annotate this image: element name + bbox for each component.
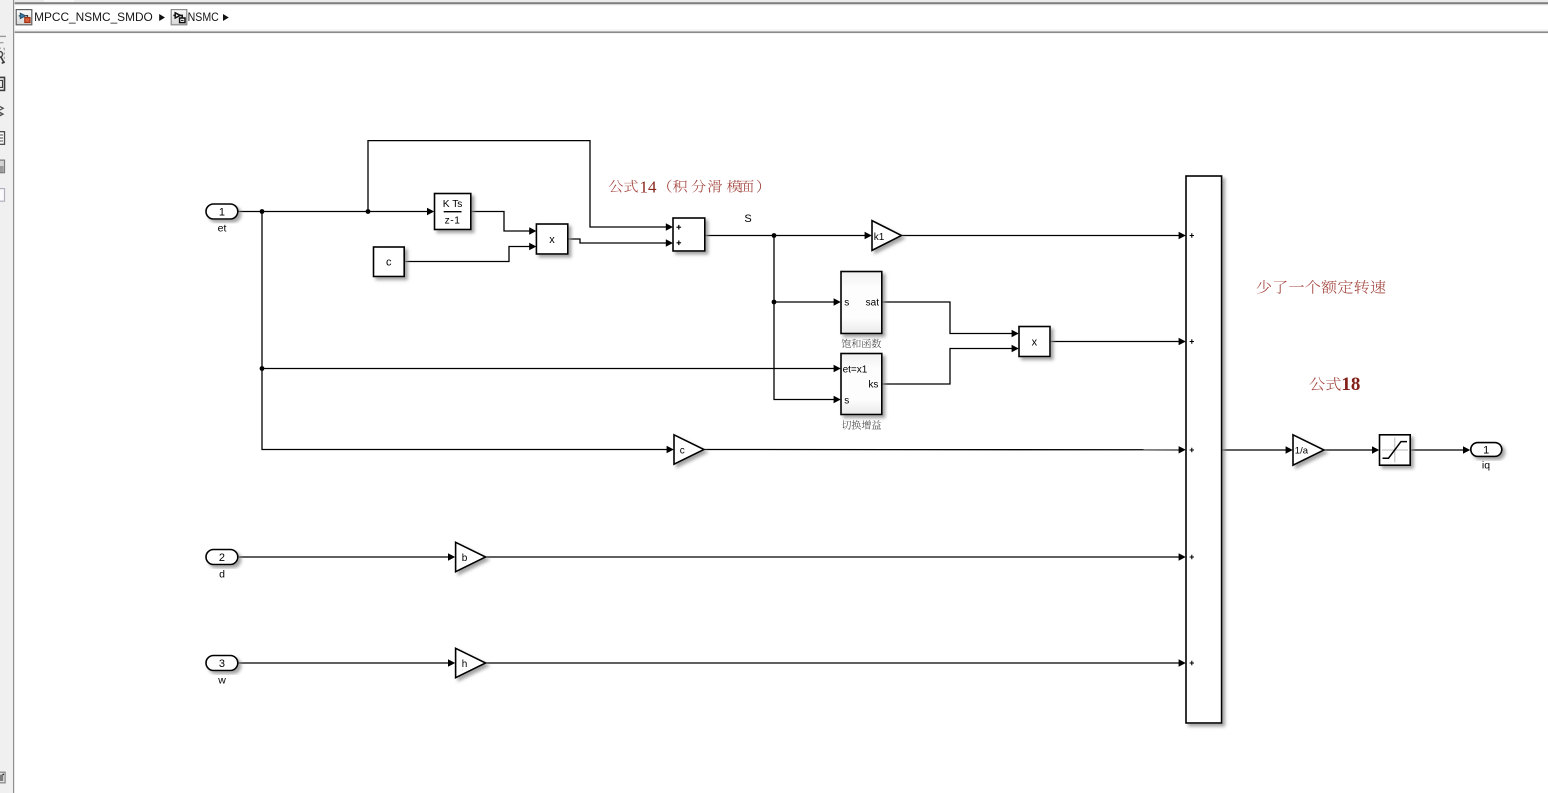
wire big sum output to gain 1/a — [1222, 449, 1287, 451]
left strip document icon — [0, 132, 5, 145]
svg-text:et=x1: et=x1 — [843, 364, 868, 375]
svg-text:b: b — [462, 553, 468, 564]
breadcrumb bar background — [15, 5, 1548, 30]
svg-text:1: 1 — [219, 207, 225, 219]
gain k1 — [872, 221, 902, 251]
svg-text:z-1: z-1 — [445, 215, 461, 226]
outport 1 iq — [1471, 443, 1502, 457]
inport 3 w — [206, 656, 238, 671]
breadcrumb model icon (MPCC_NSMC_SMDO) — [16, 10, 32, 25]
saturation subsystem 饱和函数 — [841, 272, 882, 334]
breadcrumb bottom border — [15, 31, 1548, 33]
gain c — [674, 435, 704, 464]
svg-text:S: S — [744, 213, 751, 225]
breadcrumb bar lower shading — [15, 29, 1548, 31]
svg-text:c: c — [386, 257, 392, 269]
svg-text:x: x — [1032, 336, 1038, 348]
breadcrumb separator arrow 1 — [159, 14, 165, 21]
wire gain h to big sum input 5 — [486, 662, 1180, 664]
svg-text:sat: sat — [866, 298, 880, 309]
annotation 公式14（积分滑模面） — [609, 180, 623, 192]
left strip find icon — [0, 48, 4, 63]
svg-text:s: s — [844, 395, 849, 406]
wire gain 1/a to saturation block — [1324, 449, 1373, 451]
left strip small mark — [0, 35, 6, 37]
wire K Ts output to product x top input — [471, 212, 530, 232]
wire saturation sat output to product x2 top input — [882, 302, 1013, 334]
wire product x2 to big sum input 2 — [1050, 341, 1180, 343]
annotation 少了一个额定转速 — [1257, 280, 1271, 294]
top dark border line — [15, 2, 1548, 4]
breadcrumb separator arrow 2 — [223, 14, 229, 21]
gain h — [456, 648, 486, 677]
wire switching gain ks output to product x2 bottom input — [882, 349, 1013, 385]
svg-text:18: 18 — [1341, 374, 1360, 395]
node junction S at x774 — [772, 233, 777, 238]
node junction et branch at y368 — [260, 366, 265, 371]
svg-text:d: d — [219, 569, 225, 581]
wire S down to saturation input — [774, 236, 834, 303]
sum block ++ — [673, 218, 705, 251]
gain 1/a — [1293, 435, 1324, 465]
wire saturation to outport iq — [1410, 449, 1463, 451]
constant block c — [374, 247, 405, 277]
svg-text:iq: iq — [1482, 460, 1490, 472]
svg-text:1/a: 1/a — [1295, 445, 1309, 456]
big sum block (5 inputs) — [1186, 176, 1222, 723]
label 饱和函数 — [842, 339, 851, 348]
product block x (second) — [1019, 327, 1050, 357]
svg-text:14: 14 — [640, 177, 658, 196]
wire inport3 w to gain h — [238, 662, 449, 664]
wire inport2 d to gain b — [238, 556, 449, 558]
wire et branch down to et=x1 input — [262, 212, 834, 369]
svg-text:x: x — [549, 234, 555, 246]
svg-text:3: 3 — [219, 658, 225, 670]
gain b — [456, 542, 486, 571]
node junction on et wire at x262 — [260, 209, 265, 214]
node junction S branch at y302 — [772, 300, 777, 305]
svg-text:MPCC_NSMC_SMDO: MPCC_NSMC_SMDO — [34, 10, 153, 24]
top window remnant band — [15, 0, 1548, 2]
left strip bottom toggle button — [0, 772, 5, 783]
svg-text:et: et — [218, 223, 227, 235]
node junction on et wire at x368 — [366, 209, 371, 214]
svg-text:s: s — [844, 298, 849, 309]
wire inport1 et to K Ts block — [238, 211, 428, 213]
wire product x to sum bottom input — [568, 239, 667, 243]
left strip image icon — [0, 160, 5, 173]
left toolbar separator line — [13, 0, 15, 793]
wire feedback up from junction to sum top input — [368, 141, 667, 227]
wire gain k1 to big sum input 1 — [902, 235, 1180, 237]
svg-text:h: h — [462, 659, 468, 670]
svg-text:ks: ks — [868, 380, 878, 391]
svg-text:NSMC: NSMC — [188, 10, 219, 24]
discrete integrator block K Ts/z-1 — [435, 194, 471, 230]
left strip fit-view icon — [0, 77, 5, 90]
inport 2 d — [206, 550, 238, 565]
svg-text:w: w — [217, 675, 226, 687]
svg-text:c: c — [680, 445, 685, 456]
wire et branch down to gain c input — [262, 369, 667, 450]
breadcrumb subsystem icon (NSMC) — [171, 10, 187, 25]
inport 1 et — [206, 204, 238, 219]
left strip partial icon line — [0, 42, 4, 44]
svg-text:2: 2 — [219, 552, 225, 564]
switching gain subsystem 切换增益 — [841, 354, 882, 415]
label 切换增益 — [842, 420, 851, 429]
left toolbar strip — [0, 0, 14, 793]
wire S down to switching gain s input — [774, 302, 834, 400]
svg-text:1: 1 — [1483, 445, 1489, 457]
svg-text:K Ts: K Ts — [443, 199, 463, 210]
left strip chevrons icon — [0, 106, 3, 117]
svg-text:k1: k1 — [874, 232, 885, 243]
wire gain b to big sum input 4 — [486, 556, 1180, 558]
product block x (first) — [536, 224, 567, 254]
wire gain c to big sum input 3 — [704, 449, 1179, 451]
saturation block (iq limiter) — [1380, 435, 1411, 465]
wire constant c to product x bottom input — [404, 247, 530, 262]
wire sum output S to gain k1 — [705, 235, 866, 237]
left strip empty box icon — [0, 189, 5, 202]
annotation 公式18 — [1310, 377, 1325, 390]
